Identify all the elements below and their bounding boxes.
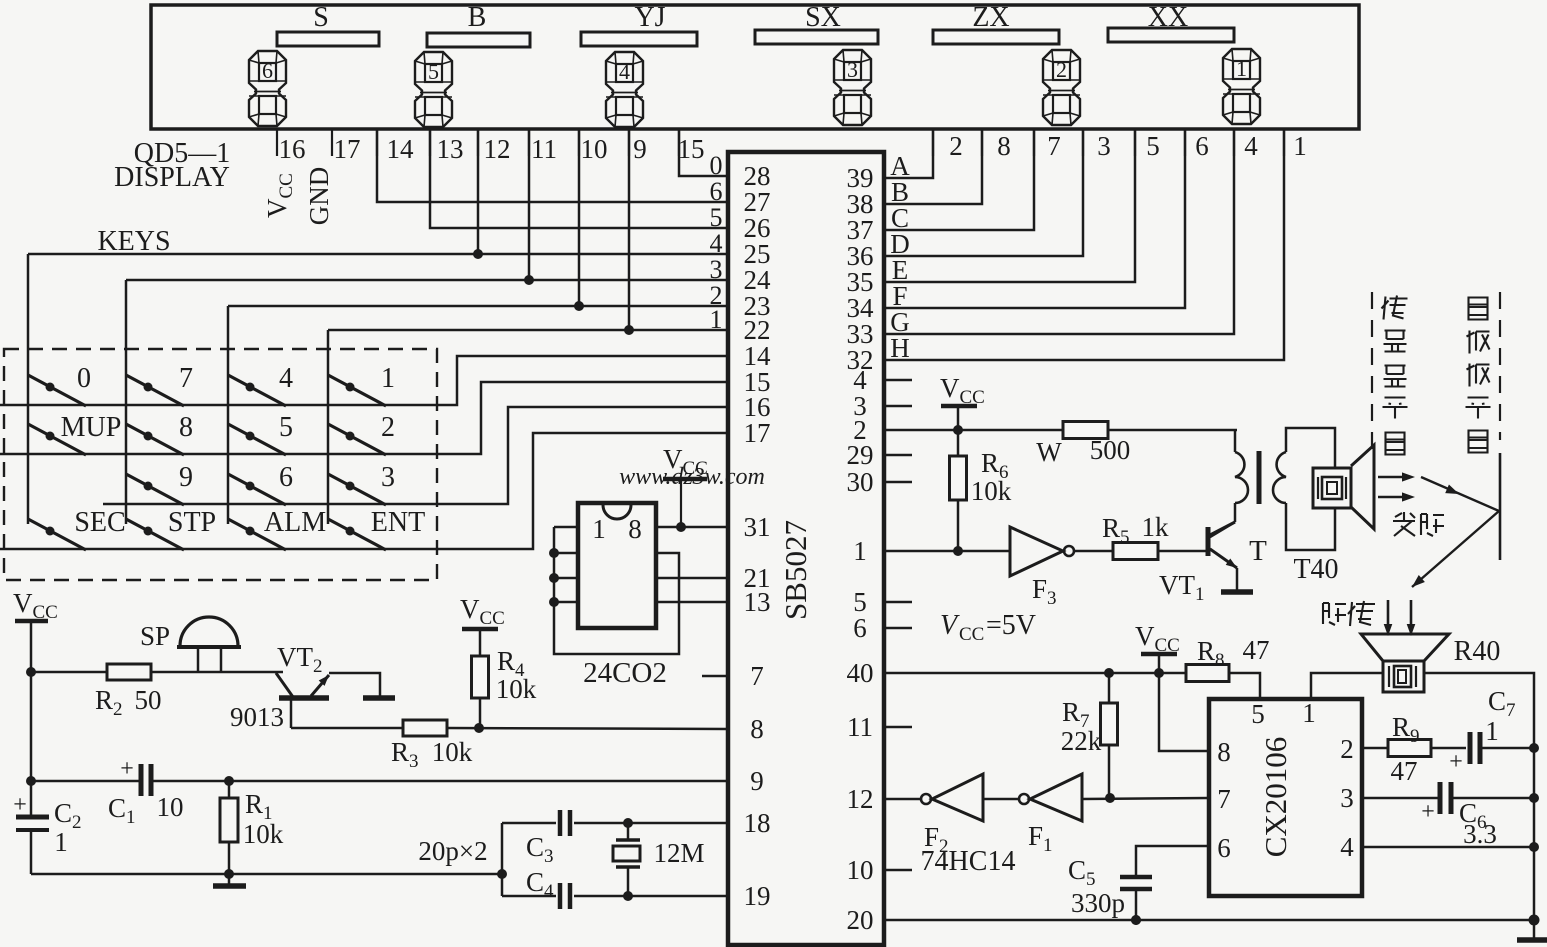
transmit arrows (1378, 472, 1415, 501)
wire pin1 to F3 (884, 550, 1010, 553)
net label B (891, 177, 909, 207)
svg-text:20p×2: 20p×2 (418, 836, 487, 866)
label sensor plane 传感器平面 (1382, 296, 1408, 455)
net label 5 (710, 203, 723, 232)
svg-text:+: + (120, 756, 134, 782)
crystal 12M (613, 823, 705, 901)
wire R40 left to CX pin1 (1311, 673, 1383, 699)
key 5 (228, 412, 293, 455)
SB5027 pin 24 (744, 265, 772, 295)
svg-text:SX: SX (805, 2, 841, 33)
IC U1 SB5027 (728, 152, 884, 945)
net label 2 (710, 281, 723, 310)
keypad column wires (28, 254, 328, 524)
SB5027 pin 27 (744, 187, 771, 217)
SB5027 pin 30 (847, 467, 874, 497)
svg-text:1: 1 (381, 363, 395, 394)
svg-text:1: 1 (1302, 698, 1316, 728)
stub NC (884, 726, 912, 729)
display pin 4 (1234, 129, 1258, 161)
resistor R5 1k (1074, 512, 1206, 560)
SB5027 pin 37 (847, 215, 874, 245)
svg-text:H: H (890, 333, 910, 363)
svg-text:1k: 1k (1142, 512, 1170, 542)
svg-text:W: W (1036, 437, 1062, 467)
svg-text:1: 1 (1236, 56, 1247, 81)
keypad dashed enclosure (4, 349, 437, 580)
svg-text:5: 5 (710, 203, 723, 232)
svg-text:500: 500 (1090, 435, 1131, 465)
capacitor C3 (502, 810, 628, 867)
display pin GND label (304, 167, 334, 226)
display group label SX (805, 2, 841, 33)
wire segment (884, 129, 1034, 230)
svg-text:1: 1 (710, 305, 723, 334)
svg-text:5: 5 (279, 412, 293, 443)
SB5027 pin 29 (847, 440, 874, 470)
SB5027 pin 4 (853, 365, 867, 395)
wire display to SB5027 (679, 129, 728, 176)
SB5027 pin 28 (744, 161, 771, 191)
bar indicator ZX (933, 30, 1059, 44)
SB5027 pin 35 (847, 267, 874, 297)
stub NC pin7 (702, 675, 728, 678)
wire segment (884, 129, 1083, 256)
wire segment (884, 129, 1185, 308)
svg-text:17: 17 (334, 134, 361, 164)
SB5027 pin 11 (847, 712, 873, 742)
svg-text:3.3: 3.3 (1463, 819, 1497, 849)
resistor R4 (472, 629, 537, 728)
svg-text:6: 6 (279, 462, 293, 493)
svg-text:330p: 330p (1071, 888, 1125, 918)
svg-text:4: 4 (1340, 832, 1354, 862)
svg-text:YJ: YJ (634, 2, 665, 33)
SB5027 pin 14 (744, 341, 772, 371)
svg-text:CX20106: CX20106 (1258, 737, 1293, 858)
capacitor C5 330p (1068, 855, 1152, 925)
SB5027 pin 38 (847, 189, 874, 219)
transistor VT1 (1159, 522, 1239, 605)
capacitor C4 (502, 867, 728, 909)
SB5027 pin 40 (847, 658, 874, 688)
display pin 9 (629, 129, 647, 164)
svg-text:T40: T40 (1293, 554, 1338, 585)
VCC symbol R4 (460, 594, 505, 629)
wire 24C02 pin5 to pin13 (656, 601, 728, 604)
ground symbol right rail (1517, 920, 1547, 940)
net label 3 (710, 255, 723, 284)
svg-text:4: 4 (279, 363, 293, 394)
net label 1 (710, 305, 723, 334)
SB5027 pin 19 (744, 881, 771, 911)
SB5027 pin 3 (853, 391, 867, 421)
stub NC (884, 379, 912, 382)
capacitor C1 (108, 756, 184, 828)
key 0 (28, 363, 91, 406)
svg-text:ALM: ALM (264, 507, 326, 538)
svg-text:18: 18 (744, 808, 771, 838)
svg-text:www.dz3w.com: www.dz3w.com (619, 464, 765, 490)
svg-text:SP: SP (140, 621, 170, 651)
svg-text:74HC14: 74HC14 (921, 846, 1016, 877)
svg-text:16: 16 (279, 134, 306, 164)
SB5027 pin 8 (750, 714, 764, 744)
svg-text:9: 9 (750, 766, 764, 796)
display pin 7 (1034, 129, 1061, 161)
key 2 (328, 412, 395, 455)
wire segment (884, 129, 982, 204)
display pin 15 (678, 129, 705, 164)
svg-text:2: 2 (949, 131, 963, 161)
svg-text:7: 7 (179, 363, 193, 394)
ground symbol VT1 (1221, 589, 1253, 595)
svg-text:7: 7 (1047, 131, 1061, 161)
inverter F3 (1010, 527, 1074, 609)
inverter F1 (1019, 774, 1082, 856)
7-segment digit 3 (834, 50, 871, 125)
transformer T (1210, 428, 1335, 567)
key ALM (228, 507, 326, 550)
svg-text:24CO2: 24CO2 (583, 657, 667, 689)
wire ground rail bottom (31, 869, 507, 879)
svg-text:SB5027: SB5027 (778, 520, 813, 620)
7-segment digit 5 (415, 52, 452, 127)
svg-text:3: 3 (1340, 783, 1354, 813)
wire C3 C4 common (418, 823, 502, 896)
svg-text:47: 47 (1391, 756, 1418, 786)
svg-text:8: 8 (997, 131, 1011, 161)
display pin 12 (478, 129, 511, 164)
SB5027 pin 1 (853, 536, 867, 566)
speaker SP (140, 617, 241, 671)
svg-text:11: 11 (847, 712, 873, 742)
bar indicator XX (1108, 28, 1234, 42)
transducer T40 (1293, 445, 1374, 585)
key STP (126, 507, 216, 550)
wire 24C02 grounded pins loop (549, 527, 679, 654)
SB5027 pin 20 (847, 905, 874, 935)
wire 24C02 pin8 to SB5027 pin31 (656, 526, 728, 529)
potentiometer W 500 (1036, 422, 1237, 468)
SB5027 pin 9 (750, 766, 764, 796)
wire VCC rail down (26, 621, 36, 815)
SB5027 pin 23 (744, 291, 771, 321)
bar indicator B (427, 33, 530, 47)
wire CX pin6 to C5 (1136, 846, 1209, 875)
IC 24CO2 (578, 503, 667, 689)
IC CX20106 (1209, 698, 1362, 896)
display pin 2 (933, 129, 963, 161)
svg-text:20: 20 (847, 905, 874, 935)
wire F1 to CX pin7 (1082, 793, 1209, 803)
sensor plane dashed line (1371, 292, 1373, 460)
wire segment (884, 129, 1135, 282)
wire pin20 ground bus (884, 915, 1534, 925)
wire segment (884, 129, 1284, 360)
svg-text:1: 1 (1293, 131, 1307, 161)
display pin 5 (1135, 129, 1160, 161)
svg-text:B: B (468, 2, 487, 33)
svg-text:0: 0 (710, 151, 723, 180)
wire keypad row to SB5027 (0, 433, 728, 549)
SB5027 pin 26 (744, 213, 771, 243)
svg-text:5: 5 (1251, 699, 1265, 729)
key ENT (328, 507, 425, 550)
wire pin12 to F2 (884, 798, 921, 801)
svg-text:50: 50 (135, 685, 162, 715)
svg-text:11: 11 (531, 134, 557, 164)
bar indicator YJ (581, 32, 697, 46)
svg-text:6: 6 (1195, 131, 1209, 161)
SB5027 pin 32 (847, 345, 874, 375)
svg-text:+: + (1421, 799, 1435, 825)
svg-text:13: 13 (437, 134, 464, 164)
svg-text:MUP: MUP (61, 412, 122, 443)
wire display to SB5027 (430, 129, 728, 228)
7-segment digit 2 (1043, 50, 1080, 125)
SB5027 pin 39 (847, 163, 874, 193)
svg-text:1: 1 (853, 536, 867, 566)
svg-text:12M: 12M (653, 838, 704, 868)
SB5027 pin 2 (853, 415, 867, 445)
label receive 接收 (1323, 601, 1375, 626)
7-segment digit 4 (606, 52, 643, 127)
bar indicator SX (755, 30, 878, 44)
resistor R2 (31, 664, 283, 720)
display pin VCC label (262, 173, 297, 218)
svg-text:6: 6 (853, 613, 867, 643)
wire CX pin2 R9 (1362, 747, 1388, 750)
svg-text:1: 1 (54, 827, 68, 857)
VCC symbol left rail (13, 588, 58, 623)
svg-text:17: 17 (744, 418, 771, 448)
key 4 (228, 363, 293, 406)
display pin 8 (982, 129, 1011, 161)
display group label XX (1148, 2, 1188, 33)
svg-text:9: 9 (179, 462, 193, 493)
SB5027 pin 31 (744, 512, 771, 542)
svg-text:13: 13 (744, 587, 771, 617)
wire keypad row to SB5027 (0, 382, 728, 454)
svg-text:2: 2 (381, 412, 395, 443)
svg-text:8: 8 (1217, 737, 1231, 767)
net label 6 (710, 177, 723, 206)
key 9 (126, 462, 193, 505)
net label E (892, 255, 909, 285)
svg-text:29: 29 (847, 440, 874, 470)
svg-text:40: 40 (847, 658, 874, 688)
key 6 (228, 462, 293, 505)
display group label B (468, 2, 487, 33)
resistor R1 (220, 781, 284, 874)
label 74HC14 (921, 846, 1016, 877)
key 7 (126, 363, 193, 406)
svg-text:3: 3 (710, 255, 723, 284)
svg-text:10: 10 (157, 792, 184, 822)
svg-text:9: 9 (633, 134, 647, 164)
svg-text:CC: CC (959, 624, 984, 645)
ground symbol R1 (213, 874, 246, 886)
svg-text:3: 3 (1097, 131, 1111, 161)
svg-text:10: 10 (581, 134, 608, 164)
svg-text:1: 1 (592, 514, 606, 544)
label target plane 目标物平面 (1466, 298, 1491, 453)
display pin 6 (1185, 129, 1209, 161)
SB5027 pin 17 (744, 418, 771, 448)
stub NC (884, 601, 912, 604)
svg-text:SEC: SEC (74, 507, 125, 538)
keypad label KEYS (97, 226, 170, 257)
svg-text:12: 12 (484, 134, 511, 164)
svg-text:ENT: ENT (371, 507, 425, 538)
stub NC (884, 481, 912, 484)
wire keypad column row (28, 129, 728, 259)
svg-text:1: 1 (1485, 716, 1499, 746)
svg-text:R40: R40 (1454, 636, 1501, 667)
svg-text:47: 47 (1243, 635, 1270, 665)
resistor R8 47 (1186, 635, 1270, 699)
wire segment (884, 129, 1234, 334)
net label F (892, 281, 907, 311)
transistor VT2 9013 (230, 642, 395, 732)
wire pin9 net (31, 776, 728, 786)
svg-text:S: S (313, 2, 329, 33)
SB5027 pin 12 (847, 784, 874, 814)
SB5027 pin 7 (750, 661, 764, 691)
svg-text:3: 3 (847, 57, 858, 82)
SB5027 pin 15 (744, 367, 771, 397)
svg-text:10k: 10k (432, 737, 473, 767)
svg-text:14: 14 (387, 134, 415, 164)
receive arrows (1384, 600, 1416, 636)
display pin 11 (529, 129, 557, 164)
SB5027 pin 34 (847, 293, 875, 323)
capacitor C6 3.3 (1421, 782, 1534, 849)
SB5027 pin 21 (744, 563, 771, 593)
display group label YJ (634, 2, 665, 33)
svg-text:+: + (1449, 749, 1463, 775)
svg-text:7: 7 (750, 661, 764, 691)
resistor R7 22k (1061, 673, 1118, 798)
SB5027 pin 10 (847, 855, 874, 885)
display pin 16 (277, 129, 306, 164)
svg-text:=5V: =5V (986, 610, 1036, 641)
wire pin18 (623, 818, 728, 828)
key 3 (328, 462, 395, 505)
wire F2 to F1 (983, 798, 1019, 801)
svg-text:31: 31 (744, 512, 771, 542)
watermark (619, 464, 765, 490)
display module QD5-1 box (151, 5, 1359, 129)
svg-text:STP: STP (168, 507, 216, 538)
wire keypad row to SB5027 (103, 407, 728, 504)
SB5027 pin 25 (744, 239, 771, 269)
svg-text:7: 7 (1217, 784, 1231, 814)
wire keypad column row (126, 129, 728, 285)
7-segment digit 1 (1223, 49, 1260, 124)
svg-text:5: 5 (428, 59, 439, 84)
display pin 14 (377, 129, 414, 164)
svg-text:8: 8 (179, 412, 193, 443)
svg-text:5: 5 (1146, 131, 1160, 161)
wire display to SB5027 (377, 129, 728, 202)
target plane dashed line (1499, 292, 1501, 560)
net label 4 (710, 229, 723, 258)
resistor R3 (291, 720, 728, 772)
display pin 1 (1284, 129, 1307, 161)
stub NC (884, 454, 912, 457)
wire CX pin3 C6 (1362, 797, 1438, 800)
svg-text:10: 10 (847, 855, 874, 885)
svg-text:2: 2 (1340, 734, 1354, 764)
svg-text:3: 3 (381, 462, 395, 493)
svg-text:+: + (13, 792, 27, 818)
key SEC (28, 507, 126, 550)
key 8 (126, 412, 193, 455)
svg-text:15: 15 (678, 134, 705, 164)
net label A (890, 151, 910, 181)
SB5027 pin 16 (744, 392, 771, 422)
stub NC (884, 627, 912, 630)
wire segment (884, 129, 933, 178)
svg-text:6: 6 (710, 177, 723, 206)
resistor R6 (950, 430, 1012, 556)
SB5027 pin 22 (744, 315, 771, 345)
svg-text:T: T (1249, 535, 1267, 567)
net label G (890, 307, 910, 337)
display group label ZX (972, 2, 1009, 33)
SB5027 pin 18 (744, 808, 771, 838)
svg-text:10k: 10k (496, 674, 537, 704)
svg-text:4: 4 (619, 59, 630, 84)
net label 0 (710, 151, 723, 180)
wire pin2 oscillator (884, 425, 1063, 435)
svg-text:GND: GND (304, 167, 334, 226)
net label H (890, 333, 910, 363)
display pin 10 (579, 129, 608, 164)
svg-text:0: 0 (77, 363, 91, 394)
echo path arrows (1409, 477, 1499, 591)
svg-text:6: 6 (1217, 833, 1231, 863)
key MUP (28, 412, 121, 455)
svg-text:V: V (940, 610, 960, 641)
svg-text:DISPLAY: DISPLAY (114, 162, 230, 193)
svg-text:2: 2 (1056, 57, 1067, 82)
svg-text:8: 8 (628, 514, 642, 544)
inverter F2 (921, 774, 983, 857)
svg-text:8: 8 (750, 714, 764, 744)
stub NC (884, 405, 912, 408)
wire keypad column row (228, 129, 728, 311)
svg-text:22k: 22k (1061, 726, 1102, 756)
7-segment digit 6 (249, 51, 286, 126)
VCC symbol R6 (940, 373, 985, 430)
wire CX pin8 VCC (1159, 673, 1209, 751)
resistor R9 47 (1388, 712, 1466, 786)
display pin 3 (1083, 129, 1111, 161)
svg-text:19: 19 (744, 881, 771, 911)
label transmit 发射 (1393, 512, 1444, 536)
capacitor C2 (13, 792, 81, 874)
svg-text:4: 4 (1244, 131, 1258, 161)
net label C (891, 203, 909, 233)
wire 24C02 pin6 to pin21 (656, 577, 728, 580)
svg-text:10k: 10k (243, 819, 284, 849)
net label D (890, 229, 910, 259)
SB5027 pin 13 (744, 587, 771, 617)
VCC symbol R8 (1135, 621, 1180, 673)
